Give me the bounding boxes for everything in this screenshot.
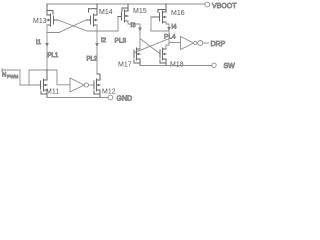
transistor M12 [94,74,116,98]
current arrow i2 [95,37,106,47]
svg-text:PL2: PL2 [87,57,98,63]
wire PL4 to inverter input [169,42,181,44]
transistor M18 [160,48,184,69]
inverter (PWM to M12 gate) [70,78,94,92]
wire PL1 junction to M11 gate branch [29,70,47,85]
wire node PL3 vertical [128,21,140,49]
transistor M11 [41,70,60,98]
svg-text:PL1: PL1 [48,53,59,59]
wire input to M11 gate [20,84,41,86]
node GND terminal [108,95,132,102]
node VBOOT terminal [205,2,237,10]
current arrow i4 [167,24,177,32]
wire cross-couple M13 gate to PL2 [58,20,97,31]
wire PL2 to M15 gate [97,17,122,32]
svg-text:i2: i2 [101,37,106,44]
inverter PL4 to DRP [181,37,198,50]
current arrow i1 [36,39,49,47]
wire node PL2 vertical [96,25,98,74]
transistor M13 [33,4,58,26]
svg-text:N: N [2,73,6,79]
wire GND rail [47,97,108,99]
svg-text:M18: M18 [170,62,184,69]
svg-text:i4: i4 [172,24,177,31]
transistor M14 [86,4,113,26]
wire node PL1 vertical [46,25,48,70]
svg-text:PL4: PL4 [164,34,176,41]
node input N_PWM [2,69,20,86]
svg-text:M13: M13 [33,18,47,25]
wire PL1 junction to inverter input [47,70,70,85]
svg-text:M15: M15 [133,8,147,15]
svg-text:M11: M11 [46,89,59,96]
svg-text:PWM: PWM [7,74,18,79]
svg-text:M17: M17 [118,62,132,69]
transistor M17 [118,48,140,69]
wire SW rail [140,65,212,67]
wire node PL4 vertical [166,22,169,49]
transistor M15 [118,4,147,22]
node DRP terminal [198,41,226,49]
wire cross-couple M14 gate to PL1 [47,20,86,33]
svg-text:SW: SW [224,63,236,70]
svg-text:i1: i1 [36,39,41,46]
svg-text:PL3: PL3 [115,38,127,45]
current arrow i3 [131,22,142,32]
node SW terminal [212,63,235,70]
svg-text:GND: GND [117,96,133,103]
wire VBOOT top rail [47,3,205,5]
svg-text:DRP: DRP [211,41,226,48]
transistor M16 [151,4,185,23]
wire cross-couple PL4 to M17 gate [135,39,170,53]
svg-text:M16: M16 [171,10,185,17]
wire M16 gate diode connection to PL4 [151,17,169,31]
svg-text:i3: i3 [131,22,136,29]
svg-text:M12: M12 [102,89,116,96]
wire cross-couple PL3 to M18 gate [140,39,160,54]
svg-text:M14: M14 [99,9,113,16]
svg-text:VBOOT: VBOOT [212,3,237,10]
